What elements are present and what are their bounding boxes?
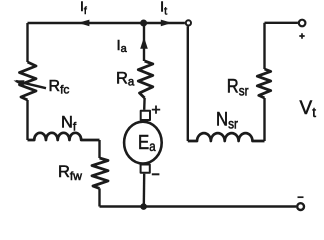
wire armature bottom lead — [143, 174, 146, 207]
plus sign armature — [152, 106, 160, 114]
wire R_fw top lead — [98, 140, 100, 158]
wire R_sr bottom lead — [263, 98, 265, 141]
wire left rail lower — [26, 100, 28, 140]
terminal circle top-right (+) — [299, 20, 306, 27]
resistor R_sr — [257, 69, 270, 98]
inductor N_f — [28, 133, 100, 140]
resistor R_fc — [20, 62, 37, 100]
minus sign terminal — [298, 196, 304, 198]
minus sign armature — [152, 173, 160, 175]
arrowhead I_t (current arrow pointing right) — [161, 20, 172, 27]
wire series branch vertical — [187, 26, 189, 141]
arrowhead I_f (current arrow pointing left) — [78, 20, 89, 27]
wire R_sr top lead — [263, 23, 265, 69]
resistor R_fw — [92, 158, 108, 188]
wire to plus terminal — [265, 22, 298, 24]
wire armature branch top — [143, 23, 145, 61]
rheostat arrow of R_fc — [16, 81, 46, 88]
arrowhead I_a (current arrow pointing up) — [140, 37, 148, 49]
wire top horizontal — [28, 22, 185, 24]
terminal circle mid (machine output node) — [186, 20, 191, 25]
rheostat arrowhead — [14, 80, 25, 86]
armature machine circle E_a — [124, 122, 162, 164]
brush bottom (square) — [141, 165, 150, 173]
wire R_a to brush — [143, 98, 146, 110]
wire bottom horizontal — [100, 205, 297, 207]
plus sign terminal — [299, 33, 304, 38]
inductor N_sr — [188, 133, 265, 141]
resistor R_a — [138, 61, 153, 98]
wire left rail upper — [26, 23, 28, 62]
junction dot top — [140, 20, 147, 27]
brush top (square) — [141, 111, 150, 120]
wire R_fw bottom lead — [98, 188, 100, 206]
junction dot bottom — [140, 203, 147, 210]
terminal circle bottom-right (-) — [297, 203, 304, 210]
